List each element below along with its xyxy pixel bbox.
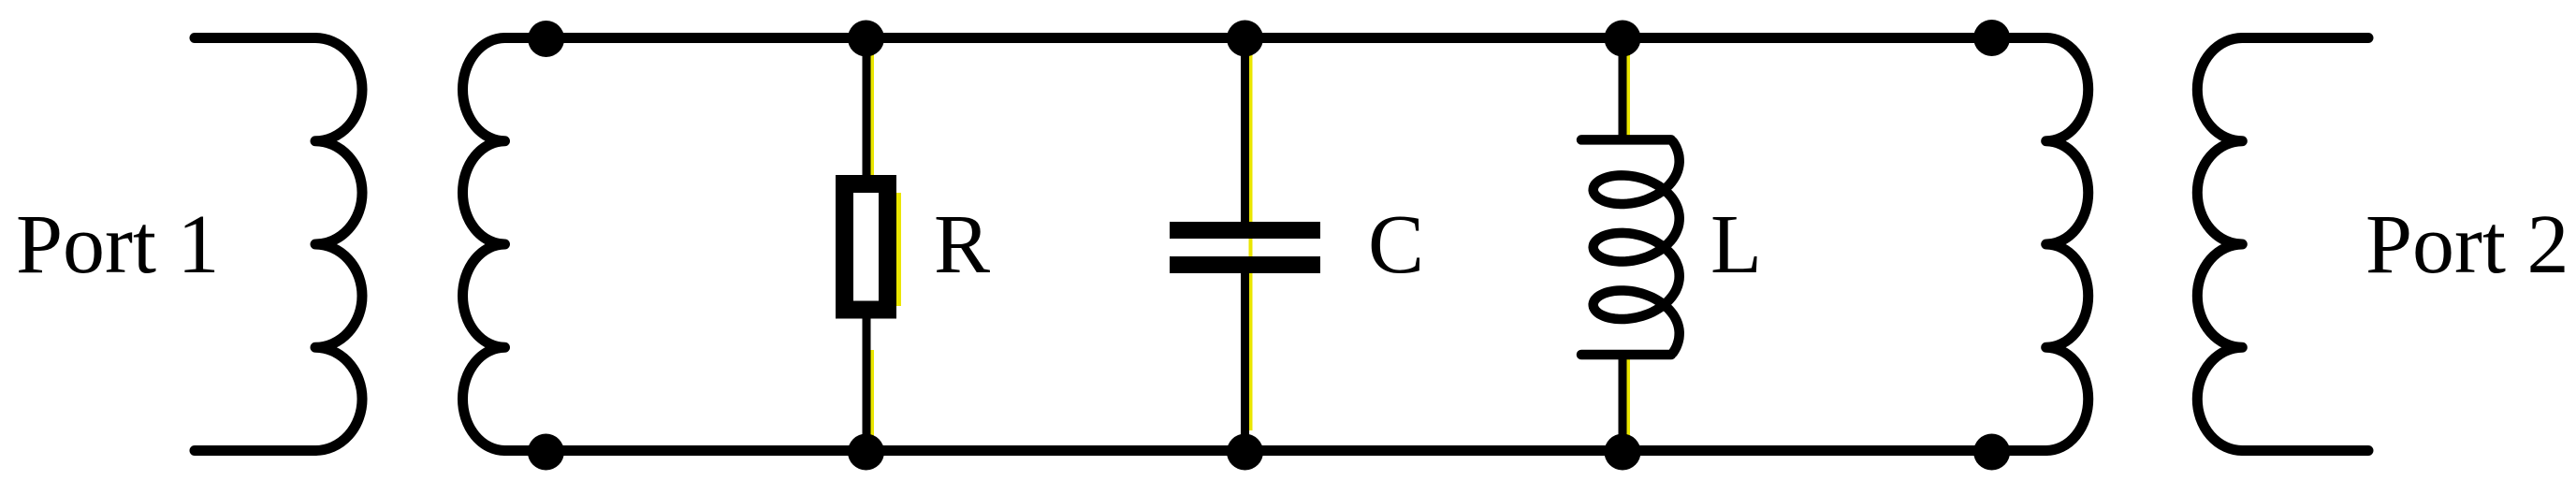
node top capacitor: [1227, 21, 1263, 57]
node top resistor: [848, 21, 884, 57]
node bottom inductor: [1605, 434, 1641, 471]
wire capacitor branch top: [1241, 38, 1249, 226]
capacitor C bottom plate: [1170, 256, 1320, 273]
inductor winding Port 2 (secondary of right transformer): [2242, 38, 2368, 451]
inductor L top lead bar: [1581, 135, 1671, 145]
coupled winding left (main loop side of left transformer): [462, 38, 504, 451]
svg-text:Port 1: Port 1: [16, 198, 220, 291]
wire inductor branch top: [1619, 38, 1627, 143]
node bottom resistor: [848, 434, 884, 471]
wire capacitor branch bottom: [1241, 270, 1249, 452]
svg-text:R: R: [934, 198, 990, 291]
node bottom right: [1973, 434, 2010, 471]
yellow artifact stripe along inductor branch wire: [1626, 42, 1630, 136]
svg-text:L: L: [1710, 198, 1762, 291]
resistor R: [845, 184, 888, 311]
yellow artifact stripe along resistor branch wire: [870, 45, 874, 176]
node bottom capacitor: [1227, 434, 1263, 471]
node top left: [528, 21, 564, 57]
wire resistor branch top: [863, 38, 871, 181]
wire inductor branch bottom: [1619, 352, 1627, 452]
wire resistor branch bottom: [863, 314, 871, 452]
node top right: [1973, 20, 2010, 56]
svg-text:Port 2: Port 2: [2365, 198, 2569, 291]
coupled winding right (main loop side of right transformer): [2046, 38, 2088, 451]
inductor winding Port 1 (primary of left transformer): [195, 38, 315, 451]
wire main loop with left coupled winding and right coupled winding: [505, 38, 2046, 451]
inductor L bottom lead bar: [1581, 350, 1671, 360]
yellow artifact stripe along capacitor branch wire: [1249, 49, 1253, 430]
capacitor C top plate: [1170, 222, 1320, 239]
yellow artifact stripe along resistor body right edge: [896, 193, 901, 306]
node bottom left: [528, 434, 564, 471]
node top inductor: [1605, 21, 1641, 57]
svg-text:C: C: [1368, 198, 1424, 291]
inductor L coil turns: [1594, 141, 1680, 353]
